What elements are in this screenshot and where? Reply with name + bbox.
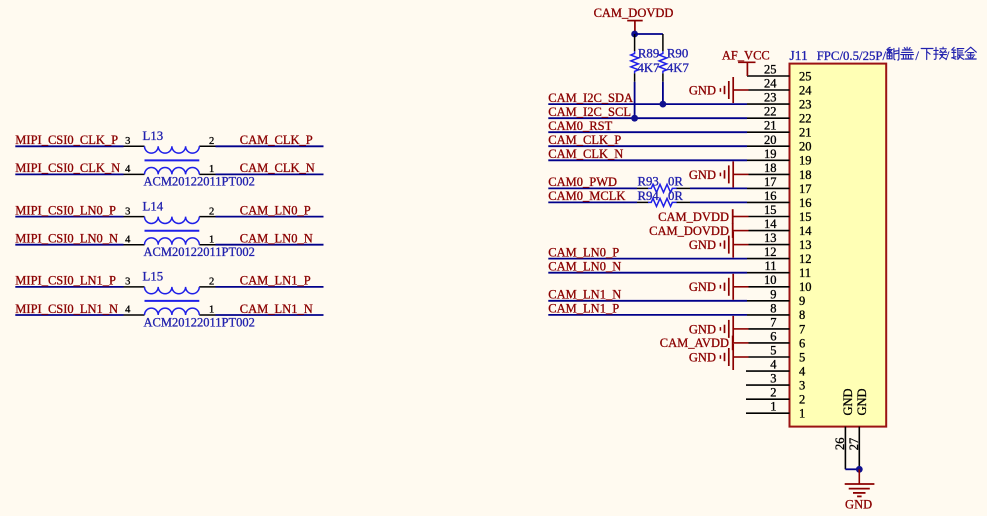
svg-text:17: 17 bbox=[764, 175, 777, 189]
svg-text:0R: 0R bbox=[668, 189, 683, 203]
svg-text:9: 9 bbox=[799, 294, 805, 308]
svg-text:L15: L15 bbox=[143, 270, 164, 284]
svg-text:21: 21 bbox=[764, 119, 777, 133]
svg-text:5: 5 bbox=[770, 344, 776, 358]
svg-text:CAM_LN1_P: CAM_LN1_P bbox=[548, 302, 619, 316]
svg-text:CAM_CLK_P: CAM_CLK_P bbox=[548, 133, 621, 147]
svg-text:11: 11 bbox=[799, 266, 811, 280]
svg-text:8: 8 bbox=[770, 301, 776, 315]
svg-text:19: 19 bbox=[764, 147, 777, 161]
svg-text:1: 1 bbox=[209, 305, 214, 316]
svg-text:17: 17 bbox=[799, 182, 812, 196]
svg-text:16: 16 bbox=[764, 189, 777, 203]
svg-text:3: 3 bbox=[799, 379, 805, 393]
svg-text:10: 10 bbox=[799, 280, 812, 294]
svg-text:4: 4 bbox=[770, 358, 777, 372]
svg-text:4K7: 4K7 bbox=[638, 61, 661, 75]
svg-text:15: 15 bbox=[764, 203, 777, 217]
svg-text:22: 22 bbox=[764, 105, 777, 119]
svg-text:20: 20 bbox=[764, 133, 777, 147]
svg-text:18: 18 bbox=[799, 168, 812, 182]
svg-text:/: / bbox=[946, 49, 950, 63]
svg-text:4: 4 bbox=[125, 305, 131, 316]
svg-text:6: 6 bbox=[770, 329, 776, 343]
svg-text:4: 4 bbox=[125, 164, 131, 175]
svg-text:ACM20122011PT002: ACM20122011PT002 bbox=[144, 175, 255, 189]
svg-text:20: 20 bbox=[799, 140, 812, 154]
svg-text:GND: GND bbox=[689, 238, 716, 252]
svg-text:15: 15 bbox=[799, 210, 812, 224]
svg-text:27: 27 bbox=[847, 438, 861, 451]
svg-text:1: 1 bbox=[799, 407, 805, 421]
svg-text:25: 25 bbox=[764, 63, 777, 77]
svg-text:25: 25 bbox=[799, 69, 812, 83]
svg-text:1: 1 bbox=[209, 234, 214, 245]
svg-text:19: 19 bbox=[799, 154, 812, 168]
svg-text:24: 24 bbox=[799, 84, 812, 98]
svg-text:CAM_LN1_N: CAM_LN1_N bbox=[548, 288, 621, 302]
svg-text:R94: R94 bbox=[638, 189, 660, 203]
svg-text:3: 3 bbox=[125, 277, 130, 288]
svg-text:16: 16 bbox=[799, 196, 812, 210]
svg-text:MIPI_CSI0_CLK_P: MIPI_CSI0_CLK_P bbox=[15, 133, 118, 147]
svg-text:14: 14 bbox=[764, 217, 777, 231]
svg-text:ACM20122011PT002: ACM20122011PT002 bbox=[144, 245, 255, 259]
svg-text:6: 6 bbox=[799, 336, 805, 350]
svg-text:5: 5 bbox=[799, 350, 805, 364]
svg-text:4: 4 bbox=[125, 234, 131, 245]
svg-text:18: 18 bbox=[764, 161, 777, 175]
svg-text:3: 3 bbox=[125, 206, 130, 217]
svg-text:GND: GND bbox=[841, 388, 855, 415]
svg-text:CAM0_RST: CAM0_RST bbox=[548, 119, 612, 133]
svg-text:CAM_CLK_P: CAM_CLK_P bbox=[240, 133, 313, 147]
svg-text:8: 8 bbox=[799, 308, 805, 322]
svg-text:ACM20122011PT002: ACM20122011PT002 bbox=[144, 315, 255, 329]
svg-text:CAM0_PWD: CAM0_PWD bbox=[548, 175, 617, 189]
svg-text:R90: R90 bbox=[667, 47, 688, 61]
svg-text:CAM_I2C_SDA: CAM_I2C_SDA bbox=[548, 91, 633, 105]
svg-text:11: 11 bbox=[764, 259, 776, 273]
svg-text:/: / bbox=[915, 49, 919, 63]
svg-text:9: 9 bbox=[770, 287, 776, 301]
svg-text:CAM_LN0_N: CAM_LN0_N bbox=[548, 260, 621, 274]
svg-text:CAM_CLK_N: CAM_CLK_N bbox=[240, 161, 315, 175]
svg-text:12: 12 bbox=[799, 252, 812, 266]
svg-text:L13: L13 bbox=[143, 129, 164, 143]
svg-text:23: 23 bbox=[764, 91, 777, 105]
svg-text:GND: GND bbox=[689, 350, 716, 364]
svg-text:GND: GND bbox=[689, 168, 716, 182]
svg-text:1: 1 bbox=[770, 400, 776, 414]
svg-text:CAM0_MCLK: CAM0_MCLK bbox=[548, 189, 625, 203]
svg-text:13: 13 bbox=[764, 231, 777, 245]
svg-text:4K7: 4K7 bbox=[667, 61, 690, 75]
svg-text:MIPI_CSI0_LN1_N: MIPI_CSI0_LN1_N bbox=[15, 302, 118, 316]
svg-text:4: 4 bbox=[799, 364, 806, 378]
svg-text:L14: L14 bbox=[143, 199, 164, 213]
svg-text:MIPI_CSI0_LN1_P: MIPI_CSI0_LN1_P bbox=[15, 274, 116, 288]
svg-text:CAM_AVDD: CAM_AVDD bbox=[660, 336, 729, 350]
svg-text:CAM_LN0_P: CAM_LN0_P bbox=[548, 245, 619, 259]
svg-text:0R: 0R bbox=[668, 175, 683, 189]
svg-text:7: 7 bbox=[770, 315, 776, 329]
svg-text:1: 1 bbox=[209, 164, 214, 175]
svg-text:2: 2 bbox=[770, 386, 776, 400]
svg-text:3: 3 bbox=[125, 136, 130, 147]
svg-text:23: 23 bbox=[799, 98, 812, 112]
svg-text:2: 2 bbox=[799, 393, 805, 407]
svg-text:CAM_CLK_N: CAM_CLK_N bbox=[548, 147, 623, 161]
svg-text:FPC/0.5/25P/: FPC/0.5/25P/ bbox=[817, 49, 887, 63]
svg-text:GND: GND bbox=[855, 388, 869, 415]
svg-text:26: 26 bbox=[833, 438, 847, 451]
svg-text:R93: R93 bbox=[638, 175, 659, 189]
svg-text:J11: J11 bbox=[790, 48, 808, 63]
svg-text:2: 2 bbox=[209, 206, 214, 217]
svg-text:GND: GND bbox=[689, 322, 716, 336]
svg-text:2: 2 bbox=[209, 136, 214, 147]
svg-text:CAM_I2C_SCL: CAM_I2C_SCL bbox=[548, 105, 631, 119]
svg-text:12: 12 bbox=[764, 245, 777, 259]
svg-text:3: 3 bbox=[770, 372, 776, 386]
svg-text:14: 14 bbox=[799, 224, 812, 238]
svg-text:R89: R89 bbox=[638, 47, 659, 61]
svg-text:2: 2 bbox=[209, 277, 214, 288]
svg-text:22: 22 bbox=[799, 112, 812, 126]
svg-text:GND: GND bbox=[689, 84, 716, 98]
svg-text:CAM_LN1_P: CAM_LN1_P bbox=[240, 274, 311, 288]
svg-text:CAM_LN0_P: CAM_LN0_P bbox=[240, 203, 311, 217]
svg-text:CAM_LN0_N: CAM_LN0_N bbox=[240, 232, 313, 246]
svg-text:24: 24 bbox=[764, 77, 777, 91]
svg-text:GND: GND bbox=[845, 498, 872, 512]
svg-text:CAM_LN1_N: CAM_LN1_N bbox=[240, 302, 313, 316]
svg-text:CAM_DOVDD: CAM_DOVDD bbox=[649, 224, 729, 238]
svg-text:CAM_DOVDD: CAM_DOVDD bbox=[594, 6, 674, 20]
svg-text:MIPI_CSI0_LN0_P: MIPI_CSI0_LN0_P bbox=[15, 203, 116, 217]
svg-text:7: 7 bbox=[799, 322, 805, 336]
svg-text:AF_VCC: AF_VCC bbox=[722, 48, 770, 62]
svg-text:10: 10 bbox=[764, 273, 777, 287]
svg-text:13: 13 bbox=[799, 238, 812, 252]
svg-text:21: 21 bbox=[799, 126, 812, 140]
svg-text:GND: GND bbox=[689, 280, 716, 294]
svg-text:CAM_DVDD: CAM_DVDD bbox=[658, 210, 729, 224]
svg-text:MIPI_CSI0_CLK_N: MIPI_CSI0_CLK_N bbox=[15, 161, 120, 175]
svg-text:MIPI_CSI0_LN0_N: MIPI_CSI0_LN0_N bbox=[15, 232, 118, 246]
